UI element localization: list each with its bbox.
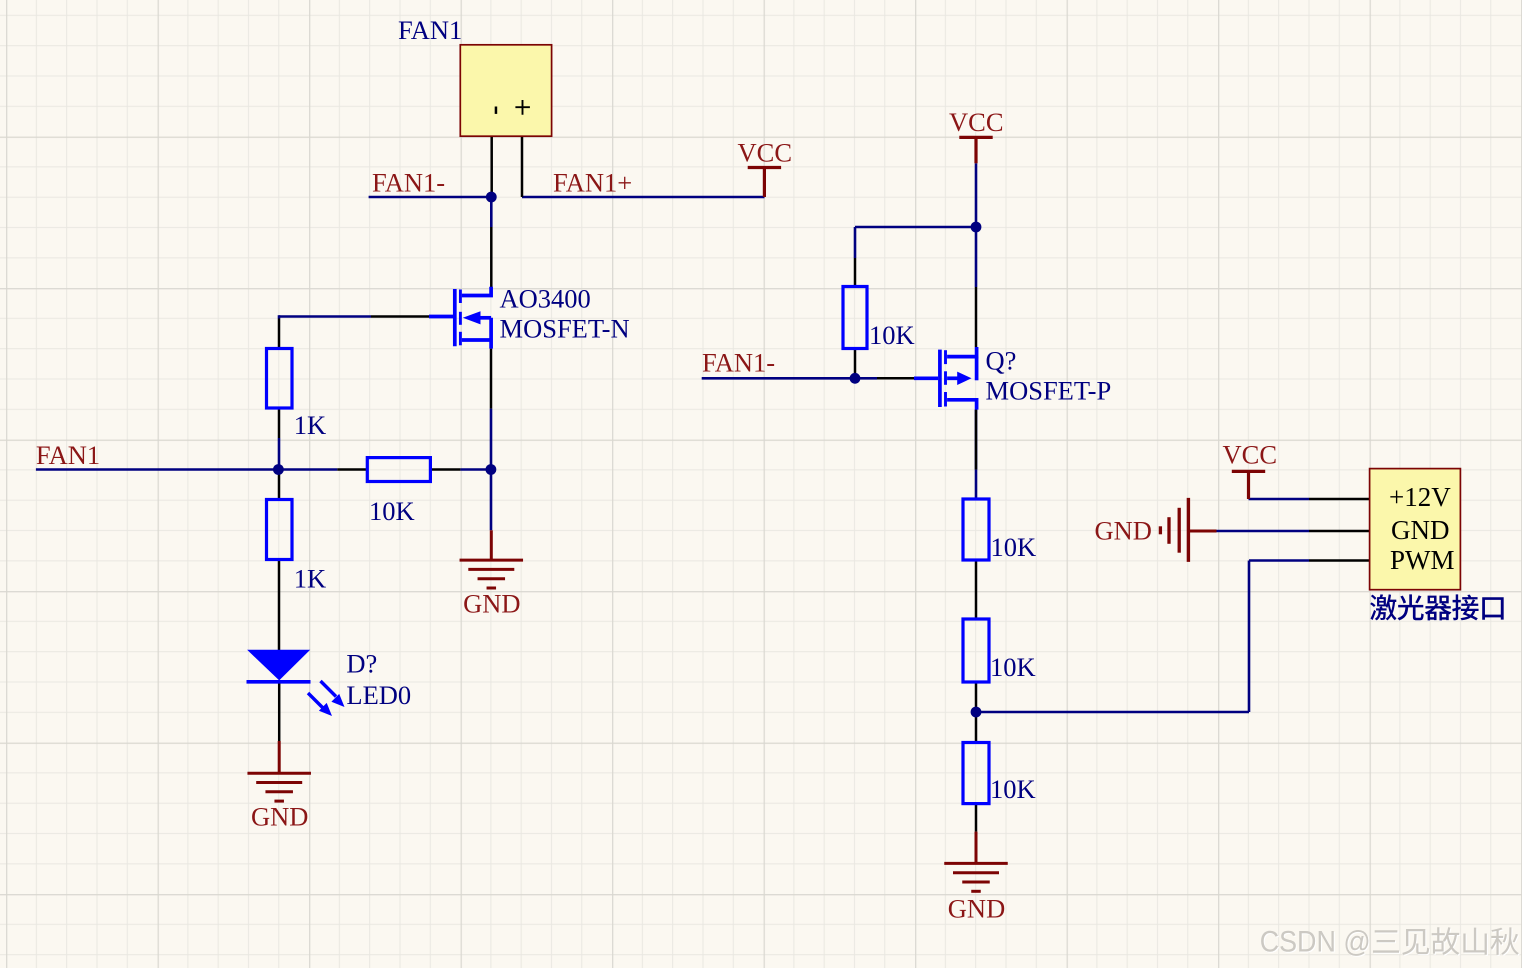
svg-text:LED0: LED0 [346, 680, 411, 710]
svg-text:D?: D? [346, 649, 377, 679]
svg-text:1K: 1K [294, 410, 326, 440]
svg-text:VCC: VCC [738, 138, 793, 168]
svg-text:PWM: PWM [1390, 545, 1455, 575]
svg-text:10K: 10K [991, 532, 1037, 562]
svg-text:GND: GND [463, 589, 520, 619]
svg-text:AO3400: AO3400 [500, 284, 591, 314]
svg-text:GND: GND [251, 802, 308, 832]
svg-text:+12V: +12V [1389, 482, 1451, 512]
svg-text:CSDN @: CSDN @ [1260, 926, 1371, 959]
svg-text:VCC: VCC [949, 107, 1004, 137]
svg-text:1K: 1K [294, 564, 326, 594]
svg-text:10K: 10K [990, 652, 1036, 682]
svg-text:GND: GND [948, 894, 1005, 924]
svg-text:FAN1-: FAN1- [372, 168, 445, 198]
svg-text:FAN1: FAN1 [36, 440, 100, 470]
svg-text:10K: 10K [869, 320, 915, 350]
svg-text:MOSFET-P: MOSFET-P [986, 376, 1112, 406]
svg-text:GND: GND [1095, 516, 1152, 546]
svg-text:10K: 10K [990, 774, 1036, 804]
svg-text:FAN1+: FAN1+ [553, 168, 632, 198]
svg-text:Q?: Q? [986, 346, 1017, 376]
svg-text:10K: 10K [369, 496, 415, 526]
svg-text:GND: GND [1391, 515, 1450, 545]
svg-text:VCC: VCC [1223, 440, 1278, 470]
svg-text:FAN1-: FAN1- [702, 348, 775, 378]
svg-text:FAN1: FAN1 [398, 15, 462, 45]
svg-text:MOSFET-N: MOSFET-N [500, 314, 630, 344]
